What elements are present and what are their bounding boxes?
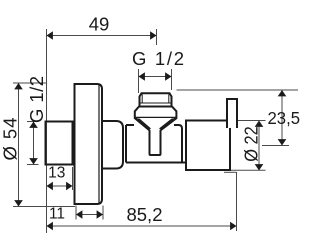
- svg-text:13: 13: [48, 165, 65, 182]
- svg-text:49: 49: [89, 14, 110, 35]
- svg-text:G 1/2: G 1/2: [26, 76, 47, 123]
- svg-text:Ø 22: Ø 22: [241, 126, 262, 162]
- svg-text:Ø 54: Ø 54: [0, 118, 21, 161]
- svg-text:23,5: 23,5: [268, 108, 301, 128]
- svg-text:85,2: 85,2: [126, 204, 162, 225]
- svg-text:G 1/2: G 1/2: [132, 48, 184, 69]
- svg-text:11: 11: [49, 206, 65, 223]
